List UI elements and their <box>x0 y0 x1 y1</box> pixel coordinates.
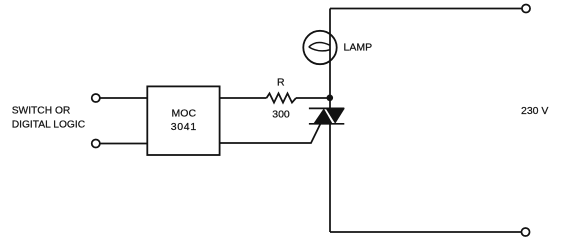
svg-text:MOC: MOC <box>172 107 197 119</box>
svg-text:SWITCH OR: SWITCH OR <box>12 106 71 117</box>
svg-text:LAMP: LAMP <box>344 41 373 53</box>
svg-text:230 V: 230 V <box>521 105 548 117</box>
svg-text:300: 300 <box>272 108 290 120</box>
svg-text:R: R <box>277 77 285 89</box>
svg-text:DIGITAL LOGIC: DIGITAL LOGIC <box>12 120 86 131</box>
svg-text:3041: 3041 <box>171 121 197 133</box>
